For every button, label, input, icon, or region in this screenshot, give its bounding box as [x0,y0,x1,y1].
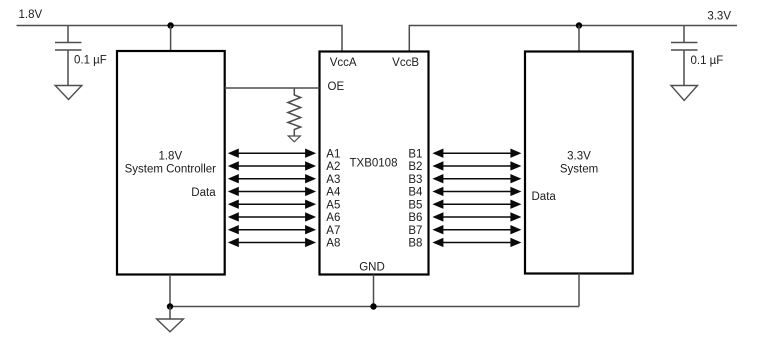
bidirectional data line A5 [228,200,316,209]
bidirectional data line A4 [228,187,316,196]
block: 3.3V System [525,52,633,274]
ground symbol at C1 [55,86,82,100]
pin label A3 [326,174,340,186]
ground symbol (main) [157,319,184,332]
wire: ground bus [170,306,579,308]
pin label B3 [408,174,422,186]
label 1.8V System Controller [125,151,217,176]
block: 1.8V System Controller [117,51,225,275]
pin label VccA [330,57,357,69]
value label 0.1 uF (C2) [691,55,724,67]
svg-text:B5: B5 [408,199,422,211]
junction: controller ground [167,303,173,309]
pin label A2 [326,161,340,173]
wire: 1.8V rail to system controller Vcc [170,26,172,52]
svg-text:A1: A1 [326,148,340,160]
wire: ground stub [169,307,171,320]
junction: 3.3V rail to system [576,22,582,28]
svg-text:B6: B6 [408,212,422,224]
pin label A4 [326,187,341,199]
bidirectional data line A3 [228,174,316,183]
bidirectional data line B6 [432,212,521,221]
svg-text:TXB0108: TXB0108 [350,158,398,170]
svg-text:System: System [560,164,598,176]
pin label B5 [408,199,422,211]
svg-text:A7: A7 [326,225,340,237]
pin label OE [328,81,345,93]
wire: 1.8V supply rail to VccA pin [17,26,343,52]
bidirectional data line A8 [228,238,316,247]
svg-text:B3: B3 [408,174,422,186]
bidirectional data line A7 [228,225,316,234]
svg-text:A8: A8 [326,238,340,250]
svg-text:1.8V: 1.8V [19,9,43,21]
bidirectional data line B2 [432,161,521,170]
bidirectional data line A2 [228,161,316,170]
capacitor C1 0.1 uF [55,26,82,86]
capacitor C2 0.1 uF [671,26,698,86]
bidirectional data line A1 [228,149,316,158]
ground symbol at C2 [671,86,698,101]
pin label B2 [408,161,422,173]
pin label B1 [408,148,422,160]
wire: 3.3V system ground down [578,274,580,307]
svg-text:B7: B7 [408,225,422,237]
svg-text:B2: B2 [408,161,422,173]
svg-text:Data: Data [532,191,557,203]
wire: U1 GND down [373,275,375,307]
bidirectional data line B4 [432,187,521,196]
net 1.8V label [19,9,43,21]
bidirectional data line B5 [432,200,521,209]
svg-text:GND: GND [359,262,385,274]
bidirectional data line B1 [432,149,521,158]
pin label A7 [326,225,340,237]
wire: 3.3V supply rail from VccB pin [409,26,737,52]
ground arrow at R1 [288,136,300,142]
svg-text:A4: A4 [326,187,341,199]
svg-text:A6: A6 [326,212,340,224]
value label 0.1 uF (C1) [74,55,107,67]
svg-text:B8: B8 [408,238,422,250]
pin label A1 [326,148,340,160]
svg-text:A5: A5 [326,199,340,211]
pin label B7 [408,225,422,237]
svg-text:A2: A2 [326,161,340,173]
pin label A8 [326,238,340,250]
pin label VccB [392,57,419,69]
bidirectional data line B3 [432,174,521,183]
svg-text:0.1 µF: 0.1 µF [691,55,724,67]
pin label A5 [326,199,340,211]
net 3.3V label [707,11,731,23]
svg-text:VccA: VccA [330,57,357,69]
pin label B6 [408,212,422,224]
IC U1 TXB0108 [320,52,429,275]
pin label B4 [408,187,423,199]
svg-text:A3: A3 [326,174,340,186]
svg-text:1.8V: 1.8V [158,151,182,163]
svg-text:System Controller: System Controller [125,164,217,176]
label 3.3V System [560,151,598,176]
pin label GND [359,262,385,274]
svg-text:VccB: VccB [392,57,419,69]
svg-text:3.3V: 3.3V [707,11,731,23]
resistor R1 pull-down on OE [288,88,301,142]
label Data (controller side) [191,187,216,199]
label Data (system side) [532,191,557,203]
pin label B8 [408,238,422,250]
wire: 3.3V rail to 3.3V system Vcc [578,26,580,52]
junction: U1 ground [370,303,376,309]
bidirectional data line A6 [228,212,316,221]
svg-text:0.1 µF: 0.1 µF [74,55,107,67]
svg-text:OE: OE [328,81,345,93]
label TXB0108 [350,158,398,170]
svg-text:3.3V: 3.3V [567,151,591,163]
wire: controller ground down [169,275,171,307]
pin label A6 [326,212,340,224]
wire: OE from controller to U1 [225,87,320,89]
svg-text:B4: B4 [408,187,423,199]
svg-text:B1: B1 [408,148,422,160]
junction: 1.8V rail to controller [167,22,173,28]
svg-text:Data: Data [191,187,216,199]
bidirectional data line B8 [432,238,521,247]
bidirectional data line B7 [432,225,521,234]
